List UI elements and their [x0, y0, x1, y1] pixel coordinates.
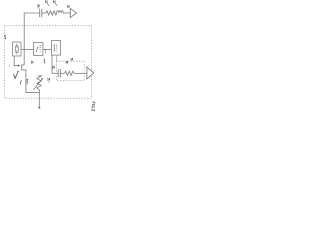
label 26 (variable resistor): [27, 79, 29, 81]
wire U1 to U2 (junction with stem): [21, 49, 34, 51]
R3 arrow: [34, 79, 42, 90]
wire U2 to U3: [43, 49, 52, 51]
variable resistor R3 zigzag: [37, 76, 42, 93]
wire top-left corner: vertical stem to top branch: [24, 13, 40, 65]
label 30 (enclosure reference): [5, 35, 7, 39]
capacitor C1 plate right: [41, 9, 43, 17]
stub from U3 bottom to inner dashed box: [55, 55, 57, 61]
ground arrowhead: [38, 107, 41, 109]
output arrow (open triangle) bottom: [87, 67, 94, 79]
wire C1 to R1: [42, 12, 46, 14]
U3 inner glyphs: [53, 44, 55, 51]
junction tick / leader on wire: [45, 50, 47, 54]
resistor R1 zigzag: [46, 11, 57, 15]
label 28 dot: [9, 66, 10, 67]
output arrow (open triangle) top: [70, 8, 76, 17]
divider box U3: [52, 41, 61, 56]
capacitor C2 plate left: [57, 69, 59, 77]
wire L1 to output buffer: [63, 12, 70, 14]
label 44 (R2): [65, 61, 68, 64]
staircase wire with control bar (current source): [22, 65, 40, 93]
label 38 (inductor) with leader: [52, 0, 55, 3]
ground lead below enclosure: [38, 92, 40, 107]
label 40 (buffer): [66, 5, 69, 8]
label 36 (resistor) with leader: [44, 0, 47, 3]
label 34 (capacitor) with leader: [36, 4, 39, 7]
label 24: [44, 59, 45, 61]
crystal symbol inside U1: [16, 44, 18, 46]
capacitor C1 plate left: [39, 9, 41, 17]
label 32: [30, 61, 33, 64]
inductor L1 bumps: [57, 11, 64, 13]
oscillator box U2: [34, 43, 43, 56]
label 42 (C2): [51, 66, 54, 69]
resistor R2 zigzag: [65, 71, 75, 75]
resonator box U1: [13, 42, 21, 56]
wire C2 to R2: [60, 72, 64, 74]
FIG caption (rotated): [92, 102, 95, 111]
wire U3 bottom down-left to C2: [52, 55, 58, 73]
capacitor C2 plate right: [59, 69, 61, 77]
label V (bias voltage): [14, 71, 19, 78]
control arrow from U1 bottom: [14, 56, 18, 66]
U2 inner glyphs: [36, 47, 37, 52]
dashed enclosure (main device boundary): [5, 26, 92, 99]
label 48 (filter input) with leader: [46, 78, 49, 81]
inner dashed box (filter): [56, 61, 84, 80]
wire R2 to output buffer 2: [74, 72, 87, 74]
label 46 (filter box): [70, 58, 73, 61]
